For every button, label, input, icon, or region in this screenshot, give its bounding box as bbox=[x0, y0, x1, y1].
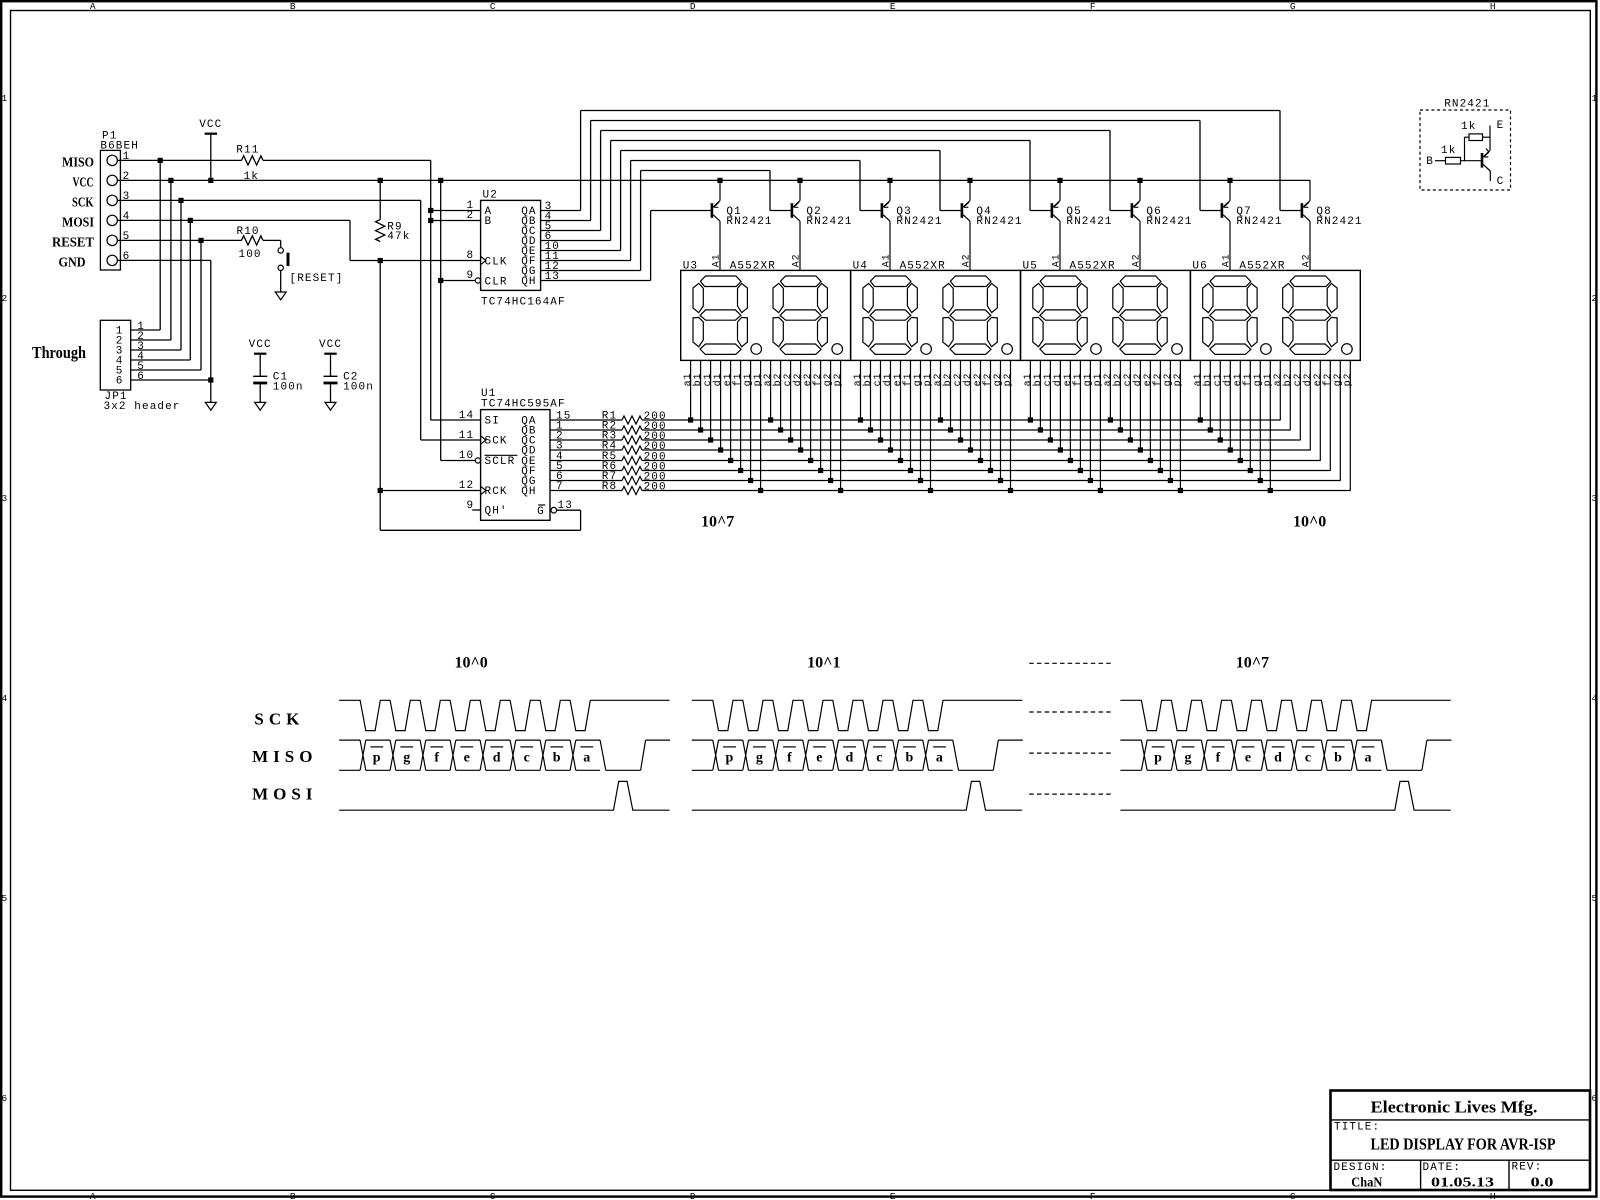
svg-text:f: f bbox=[434, 750, 439, 765]
timing group 10^0 SCK waveform bbox=[339, 700, 669, 730]
svg-text:c: c bbox=[524, 750, 530, 765]
junction MOSI/JP1 bbox=[188, 218, 193, 223]
wire U5 pin g2 bbox=[1169, 360, 1171, 480]
junction VCC bbox=[378, 178, 383, 183]
svg-text:6: 6 bbox=[137, 371, 145, 383]
wire U3 pin a2 bbox=[770, 360, 772, 420]
svg-text:D: D bbox=[690, 1191, 696, 1200]
svg-text:VCC: VCC bbox=[249, 339, 272, 351]
wire U5 pin e1 bbox=[1069, 360, 1071, 460]
wire GND net bbox=[120, 259, 210, 261]
svg-text:p2: p2 bbox=[1343, 373, 1354, 387]
wire U4 pin d1 bbox=[890, 360, 892, 450]
wire U3 pin g1 bbox=[750, 360, 752, 480]
wire U4 pin b1 bbox=[870, 360, 872, 430]
svg-text:E: E bbox=[890, 1191, 896, 1200]
U3 decimal point 1 bbox=[751, 344, 762, 355]
wire U6 pin e1 bbox=[1239, 360, 1241, 460]
svg-text:F: F bbox=[1090, 1, 1096, 12]
transistor Q5 RN2421 bbox=[1051, 203, 1054, 218]
wire U4 pin e1 bbox=[900, 360, 902, 460]
svg-text:A552XR: A552XR bbox=[1070, 260, 1116, 272]
svg-text:QH: QH bbox=[521, 486, 536, 498]
svg-text:R8: R8 bbox=[602, 481, 617, 493]
svg-text:QH: QH bbox=[521, 276, 536, 288]
wire JP1 pin 6 bbox=[131, 379, 211, 381]
wire U4 pin a1 bbox=[860, 360, 862, 420]
svg-text:b: b bbox=[906, 750, 914, 765]
svg-text:RN2421: RN2421 bbox=[896, 216, 942, 228]
svg-text:A1: A1 bbox=[711, 253, 722, 267]
svg-text:RN2421: RN2421 bbox=[976, 216, 1022, 228]
wire U5 pin b2 bbox=[1119, 360, 1121, 430]
svg-text:RN2421: RN2421 bbox=[1066, 216, 1112, 228]
svg-text:1: 1 bbox=[1, 93, 7, 104]
timing group 10^1 MISO waveform bbox=[692, 739, 713, 741]
svg-text:B: B bbox=[485, 216, 493, 228]
svg-text:B: B bbox=[290, 1, 296, 12]
wire segment net b bbox=[642, 429, 1291, 431]
timing group 10^7 MOSI waveform bbox=[1120, 781, 1450, 810]
svg-text:C: C bbox=[1497, 176, 1505, 188]
timing group 10^0 MOSI waveform bbox=[339, 781, 669, 810]
wire Q4 base net (QE) bbox=[541, 250, 621, 252]
svg-text:d: d bbox=[846, 750, 854, 765]
svg-text:D: D bbox=[690, 1, 696, 12]
svg-text:200: 200 bbox=[644, 481, 667, 493]
svg-text:10^7: 10^7 bbox=[1236, 654, 1269, 671]
svg-text:p: p bbox=[1154, 750, 1162, 765]
svg-text:H: H bbox=[1490, 1191, 1496, 1200]
svg-text:A552XR: A552XR bbox=[900, 260, 946, 272]
svg-text:13: 13 bbox=[558, 500, 573, 512]
svg-text:3x2 header: 3x2 header bbox=[104, 401, 181, 413]
capacitor C1 100n bbox=[254, 353, 266, 355]
svg-text:B: B bbox=[1426, 156, 1434, 168]
U6 digit 2 bbox=[1283, 276, 1337, 354]
junction VCC bbox=[208, 178, 213, 183]
wire U4 pin b2 bbox=[950, 360, 952, 430]
svg-text:A: A bbox=[90, 1, 96, 12]
wire Q6 base net (QC) bbox=[541, 230, 601, 232]
svg-text:10^7: 10^7 bbox=[701, 514, 734, 531]
svg-text:11: 11 bbox=[459, 430, 474, 442]
wire U4 pin g1 bbox=[920, 360, 922, 480]
junction VCC bbox=[887, 178, 892, 183]
svg-text:e: e bbox=[1245, 750, 1251, 765]
svg-text:H: H bbox=[1490, 1, 1496, 12]
svg-text:a: a bbox=[583, 750, 590, 765]
svg-text:p: p bbox=[373, 750, 381, 765]
svg-text:RN2421: RN2421 bbox=[1236, 216, 1282, 228]
display U3 A552XR bbox=[681, 270, 851, 360]
ground GND net bbox=[205, 402, 216, 410]
wire JP1 pin 3 bbox=[131, 349, 181, 351]
junction RCK bbox=[378, 488, 383, 493]
wire U4 pin f1 bbox=[910, 360, 912, 470]
wire U5 pin a1 bbox=[1029, 360, 1031, 420]
wire U3 pin g2 bbox=[830, 360, 832, 480]
svg-text:100n: 100n bbox=[343, 382, 374, 394]
wire U6 pin b2 bbox=[1289, 360, 1291, 430]
wire U3 pin d1 bbox=[720, 360, 722, 450]
svg-text:TC74HC164AF: TC74HC164AF bbox=[481, 296, 566, 308]
svg-text:QH': QH' bbox=[485, 506, 508, 518]
svg-text:1k: 1k bbox=[1461, 121, 1476, 133]
U5 decimal point 1 bbox=[1091, 344, 1102, 355]
svg-text:C: C bbox=[490, 1191, 496, 1200]
U5 digit 1 bbox=[1033, 276, 1087, 354]
wire U6 pin a2 bbox=[1279, 360, 1281, 420]
display U6 A552XR bbox=[1190, 270, 1360, 360]
U6 digit 1 bbox=[1203, 276, 1257, 354]
wire U6 pin c2 bbox=[1299, 360, 1301, 440]
wire segment net c bbox=[642, 439, 1301, 441]
svg-text:RN2421: RN2421 bbox=[806, 216, 852, 228]
ground under C1 bbox=[255, 402, 266, 410]
wire U3 pin f1 bbox=[740, 360, 742, 470]
svg-text:3: 3 bbox=[1591, 493, 1597, 504]
svg-text:SCK: SCK bbox=[485, 436, 508, 448]
svg-text:G: G bbox=[1290, 1, 1296, 12]
wire U3 pin c2 bbox=[790, 360, 792, 440]
timing group 10^1 SCK waveform bbox=[692, 700, 1022, 730]
junction VCC bbox=[168, 178, 173, 183]
timing group 10^1 MOSI waveform bbox=[692, 781, 1022, 810]
svg-text:1: 1 bbox=[1591, 93, 1597, 104]
svg-text:4: 4 bbox=[1591, 693, 1597, 704]
wire U3 pin d2 bbox=[800, 360, 802, 450]
junction MISO/JP1 bbox=[158, 158, 163, 163]
svg-text:REV:: REV: bbox=[1512, 1162, 1543, 1174]
ground under C2 bbox=[325, 402, 336, 410]
VCC symbol top bbox=[205, 133, 217, 135]
wire U4 pin g2 bbox=[1000, 360, 1002, 480]
wire U5 pin p1 bbox=[1099, 360, 1101, 490]
timing group 10^7 SCK waveform bbox=[1120, 700, 1450, 730]
wire U5 pin c1 bbox=[1049, 360, 1051, 440]
wire Q8 base net (QA) bbox=[541, 210, 581, 212]
inset base resistor 1k bbox=[1435, 160, 1446, 162]
resistor R5 200 bbox=[550, 460, 622, 462]
wire U4 pin d2 bbox=[970, 360, 972, 450]
wire U4 pin c2 bbox=[960, 360, 962, 440]
junction VCC/CLR bbox=[438, 278, 443, 283]
resistor R6 200 bbox=[550, 470, 622, 472]
svg-text:A2: A2 bbox=[791, 253, 802, 267]
inset b-e resistor 1k bbox=[1464, 137, 1466, 161]
svg-text:U5: U5 bbox=[1023, 260, 1038, 272]
svg-text:47k: 47k bbox=[387, 231, 410, 243]
junction VCC bbox=[1057, 178, 1062, 183]
svg-text:9: 9 bbox=[466, 270, 474, 282]
U5 digit 2 bbox=[1113, 276, 1167, 354]
wire U6 pin g2 bbox=[1339, 360, 1341, 480]
resistor R9 47k bbox=[379, 180, 381, 219]
U4 decimal point 2 bbox=[1002, 344, 1013, 355]
wire U5 pin e2 bbox=[1149, 360, 1151, 460]
wire U4 pin e2 bbox=[980, 360, 982, 460]
junction RESET/JP1 bbox=[198, 238, 203, 243]
wire segment net p bbox=[642, 490, 1351, 492]
svg-text:SI: SI bbox=[485, 416, 500, 428]
wire VCC rail bbox=[120, 179, 1310, 181]
svg-text:0.0: 0.0 bbox=[1531, 1176, 1554, 1191]
wire U4 pin c1 bbox=[880, 360, 882, 440]
wire segment net d bbox=[642, 449, 1311, 451]
wire U3 pin b2 bbox=[780, 360, 782, 430]
IC U2 TC74HC164AF bbox=[481, 200, 541, 290]
U3 digit 1 bbox=[693, 276, 747, 354]
svg-text:c: c bbox=[876, 750, 882, 765]
wire RESET net bbox=[120, 239, 241, 241]
svg-text:MOSI: MOSI bbox=[252, 785, 317, 804]
svg-text:RN2421: RN2421 bbox=[726, 216, 772, 228]
title block bbox=[1331, 1091, 1591, 1191]
junction U2.A bbox=[428, 208, 433, 213]
wire U6 pin g1 bbox=[1259, 360, 1261, 480]
svg-text:6: 6 bbox=[1, 1093, 7, 1104]
junction VCC bbox=[967, 178, 972, 183]
svg-text:R10: R10 bbox=[237, 226, 260, 238]
svg-text:f: f bbox=[1216, 750, 1221, 765]
svg-text:VCC: VCC bbox=[199, 119, 222, 131]
svg-text:a: a bbox=[936, 750, 943, 765]
svg-text:A552XR: A552XR bbox=[1239, 260, 1285, 272]
wire U3 pin c1 bbox=[710, 360, 712, 440]
transistor Q7 RN2421 bbox=[1221, 203, 1224, 218]
junction VCC bbox=[797, 178, 802, 183]
svg-text:g: g bbox=[403, 750, 410, 765]
wire U5 pin f1 bbox=[1079, 360, 1081, 470]
resistor R4 200 bbox=[550, 449, 622, 451]
svg-text:R11: R11 bbox=[236, 144, 259, 156]
transistor Q8 RN2421 bbox=[1301, 203, 1304, 218]
timing continuation dashes bbox=[1029, 662, 1111, 664]
svg-text:10^0: 10^0 bbox=[1293, 514, 1326, 531]
svg-text:10: 10 bbox=[459, 450, 474, 462]
junction MOSI/R9 bbox=[378, 258, 383, 263]
resistor R10 100 bbox=[242, 236, 264, 245]
U1 pin 9 QH' stub bbox=[472, 509, 480, 511]
svg-text:DATE:: DATE: bbox=[1423, 1162, 1462, 1174]
svg-text:MISO: MISO bbox=[252, 747, 317, 766]
wire U6 pin f1 bbox=[1249, 360, 1251, 470]
U6 decimal point 1 bbox=[1261, 344, 1272, 355]
display U5 A552XR bbox=[1021, 270, 1191, 360]
IC U1 TC74HC595AF bbox=[481, 410, 550, 521]
svg-text:d: d bbox=[493, 750, 501, 765]
U6 decimal point 2 bbox=[1342, 344, 1353, 355]
timing group 10^0 MISO waveform bbox=[339, 739, 360, 741]
svg-text:6: 6 bbox=[1591, 1093, 1597, 1104]
U3 decimal point 2 bbox=[832, 344, 843, 355]
svg-text:A2: A2 bbox=[1301, 253, 1312, 267]
wire U3 pin e1 bbox=[730, 360, 732, 460]
wire U5 pin d1 bbox=[1059, 360, 1061, 450]
svg-text:1k: 1k bbox=[1441, 145, 1456, 157]
wire Q5 base net (QD) bbox=[541, 240, 611, 242]
svg-text:U2: U2 bbox=[483, 190, 498, 202]
wire U4 pin a2 bbox=[940, 360, 942, 420]
svg-text:a: a bbox=[1365, 750, 1372, 765]
svg-text:4: 4 bbox=[1, 693, 7, 704]
svg-text:A1: A1 bbox=[1221, 253, 1232, 267]
svg-text:3: 3 bbox=[1, 493, 7, 504]
svg-text:Through: Through bbox=[32, 343, 86, 362]
svg-text:g: g bbox=[756, 750, 763, 765]
svg-text:c: c bbox=[1305, 750, 1311, 765]
svg-text:b: b bbox=[553, 750, 561, 765]
transistor Q1 RN2421 bbox=[711, 203, 714, 218]
svg-text:p2: p2 bbox=[833, 373, 844, 387]
svg-text:8: 8 bbox=[466, 250, 474, 262]
svg-text:SCLR: SCLR bbox=[485, 456, 516, 468]
svg-text:10^1: 10^1 bbox=[807, 654, 840, 671]
wire MOSI net bbox=[120, 219, 350, 221]
inset transistor bbox=[1481, 153, 1484, 168]
transistor Q2 RN2421 bbox=[791, 203, 794, 218]
svg-text:e: e bbox=[816, 750, 822, 765]
ground under [RESET] bbox=[275, 292, 286, 300]
U2 pin 9 CLR bubble bbox=[475, 278, 480, 283]
wire U4 pin f2 bbox=[990, 360, 992, 470]
wire U6 pin a1 bbox=[1199, 360, 1201, 420]
wire Q3 base net (QF) bbox=[541, 260, 631, 262]
resistor R1 200 bbox=[550, 419, 622, 421]
wire U6 pin d1 bbox=[1229, 360, 1231, 450]
resistor R11 1k bbox=[242, 156, 264, 165]
svg-text:A1: A1 bbox=[1051, 253, 1062, 267]
wire U4 pin p2 bbox=[1010, 360, 1012, 490]
connector P1 bbox=[100, 150, 120, 270]
wire U6 pin d2 bbox=[1309, 360, 1311, 450]
wire U6 pin f2 bbox=[1329, 360, 1331, 470]
svg-text:G: G bbox=[1290, 1191, 1296, 1200]
svg-text:14: 14 bbox=[459, 410, 474, 422]
svg-text:RCK: RCK bbox=[485, 486, 508, 498]
wire U3 pin b1 bbox=[700, 360, 702, 430]
junction VCC bbox=[438, 178, 443, 183]
svg-text:f: f bbox=[787, 750, 792, 765]
U4 digit 1 bbox=[863, 276, 917, 354]
svg-text:A2: A2 bbox=[1131, 253, 1142, 267]
wire U3 pin f2 bbox=[820, 360, 822, 470]
svg-text:b: b bbox=[1334, 750, 1342, 765]
U4 decimal point 1 bbox=[921, 344, 932, 355]
svg-text:G: G bbox=[537, 506, 545, 518]
svg-text:p2: p2 bbox=[1003, 373, 1014, 387]
svg-text:d: d bbox=[1274, 750, 1282, 765]
wire U6 pin b1 bbox=[1209, 360, 1211, 430]
capacitor C2 100n bbox=[324, 353, 336, 355]
wire Q1 base net (QH) bbox=[541, 280, 651, 282]
U1 pin 10 SCLR bubble bbox=[475, 458, 480, 463]
U4 digit 2 bbox=[943, 276, 997, 354]
svg-text:RN2421: RN2421 bbox=[1146, 216, 1192, 228]
svg-text:6: 6 bbox=[116, 376, 124, 388]
wire segment net e bbox=[642, 460, 1321, 462]
svg-text:F: F bbox=[1090, 1191, 1096, 1200]
svg-text:LED DISPLAY FOR AVR-ISP: LED DISPLAY FOR AVR-ISP bbox=[1371, 1135, 1556, 1154]
display U4 A552XR bbox=[851, 270, 1021, 360]
svg-text:[RESET]: [RESET] bbox=[290, 273, 344, 285]
wire JP1 pin 4 bbox=[131, 359, 191, 361]
wire U5 pin g1 bbox=[1089, 360, 1091, 480]
svg-text:12: 12 bbox=[459, 480, 474, 492]
wire segment net a bbox=[642, 419, 1281, 421]
svg-text:MISO: MISO bbox=[62, 156, 94, 171]
wire segment net g bbox=[642, 480, 1341, 482]
wire JP1 pin 2 bbox=[131, 339, 171, 341]
svg-text:E: E bbox=[1497, 120, 1505, 132]
svg-text:E: E bbox=[890, 1, 896, 12]
wire U5 pin c2 bbox=[1129, 360, 1131, 440]
svg-text:DESIGN:: DESIGN: bbox=[1334, 1162, 1388, 1174]
wire segment net f bbox=[642, 470, 1331, 472]
wire U3 pin a1 bbox=[690, 360, 692, 420]
svg-text:g: g bbox=[1185, 750, 1192, 765]
switch [RESET] bbox=[263, 239, 281, 241]
svg-text:U6: U6 bbox=[1192, 260, 1207, 272]
connector JP1 3x2 header bbox=[100, 320, 130, 390]
junction SCK/JP1 bbox=[178, 198, 183, 203]
svg-text:C: C bbox=[490, 1, 496, 12]
svg-text:100: 100 bbox=[239, 249, 262, 261]
svg-text:1k: 1k bbox=[244, 171, 259, 183]
svg-text:A1: A1 bbox=[881, 253, 892, 267]
wire U6 pin e2 bbox=[1319, 360, 1321, 460]
svg-text:RESET: RESET bbox=[52, 236, 95, 251]
svg-text:e: e bbox=[464, 750, 470, 765]
svg-text:ChaN: ChaN bbox=[1351, 1176, 1382, 1191]
svg-text:Electronic Lives Mfg.: Electronic Lives Mfg. bbox=[1371, 1097, 1538, 1116]
wire U3 pin e2 bbox=[810, 360, 812, 460]
svg-text:GND: GND bbox=[59, 256, 86, 271]
junction U2.B bbox=[428, 218, 433, 223]
svg-text:01.05.13: 01.05.13 bbox=[1431, 1176, 1494, 1191]
wire Q2 base net (QG) bbox=[541, 270, 641, 272]
transistor Q3 RN2421 bbox=[881, 203, 884, 218]
svg-text:VCC: VCC bbox=[73, 176, 94, 191]
junction VCC bbox=[1137, 178, 1142, 183]
svg-text:100n: 100n bbox=[273, 382, 304, 394]
transistor Q4 RN2421 bbox=[961, 203, 964, 218]
wire U5 pin a2 bbox=[1109, 360, 1111, 420]
svg-text:2: 2 bbox=[466, 210, 474, 222]
svg-text:5: 5 bbox=[1591, 893, 1597, 904]
svg-text:10^0: 10^0 bbox=[454, 654, 487, 671]
wire U6 pin c1 bbox=[1219, 360, 1221, 440]
svg-text:B6BEH: B6BEH bbox=[100, 141, 139, 153]
junction VCC bbox=[717, 178, 722, 183]
wire U5 pin b1 bbox=[1039, 360, 1041, 430]
svg-text:U3: U3 bbox=[683, 260, 698, 272]
timing group 10^7 MISO waveform bbox=[1120, 739, 1141, 741]
svg-text:5: 5 bbox=[1, 893, 7, 904]
svg-text:TC74HC595AF: TC74HC595AF bbox=[481, 398, 566, 410]
wire U5 pin d2 bbox=[1139, 360, 1141, 450]
wire U5 pin f2 bbox=[1159, 360, 1161, 470]
U5 decimal point 2 bbox=[1172, 344, 1183, 355]
svg-text:2: 2 bbox=[1591, 293, 1597, 304]
svg-text:p: p bbox=[726, 750, 734, 765]
wire U3 pin p2 bbox=[840, 360, 842, 490]
svg-text:TITLE:: TITLE: bbox=[1334, 1121, 1380, 1133]
wire U4 pin p1 bbox=[930, 360, 932, 490]
transistor Q6 RN2421 bbox=[1131, 203, 1134, 218]
wire SCK net bbox=[120, 199, 420, 201]
